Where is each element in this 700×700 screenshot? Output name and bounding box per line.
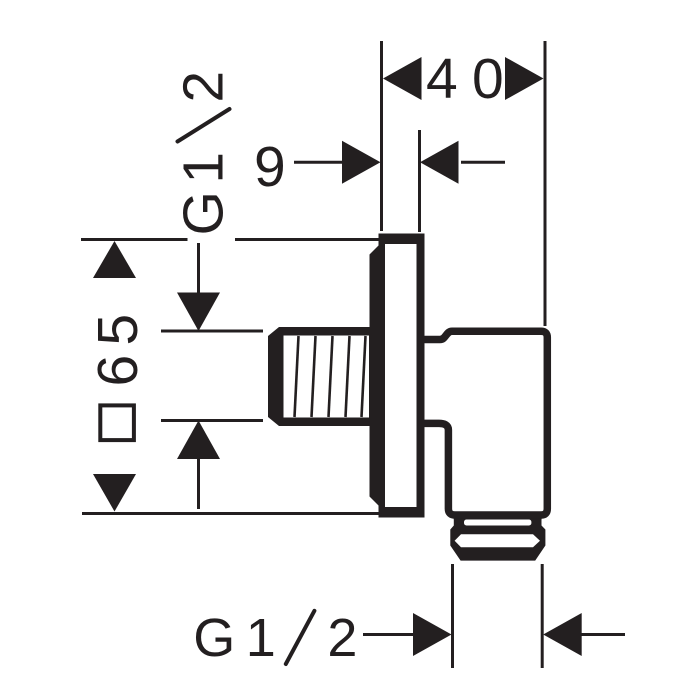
svg-text:1: 1 — [246, 608, 276, 668]
svg-text:2: 2 — [327, 608, 357, 668]
svg-text:9: 9 — [254, 135, 286, 199]
svg-text:G: G — [172, 191, 236, 235]
svg-text:6: 6 — [86, 355, 150, 387]
svg-text:2: 2 — [172, 71, 236, 103]
svg-text:G: G — [193, 608, 235, 668]
svg-text:1: 1 — [172, 152, 236, 184]
svg-text:0: 0 — [472, 47, 504, 111]
svg-text:5: 5 — [86, 314, 150, 346]
svg-text:4: 4 — [426, 47, 458, 111]
